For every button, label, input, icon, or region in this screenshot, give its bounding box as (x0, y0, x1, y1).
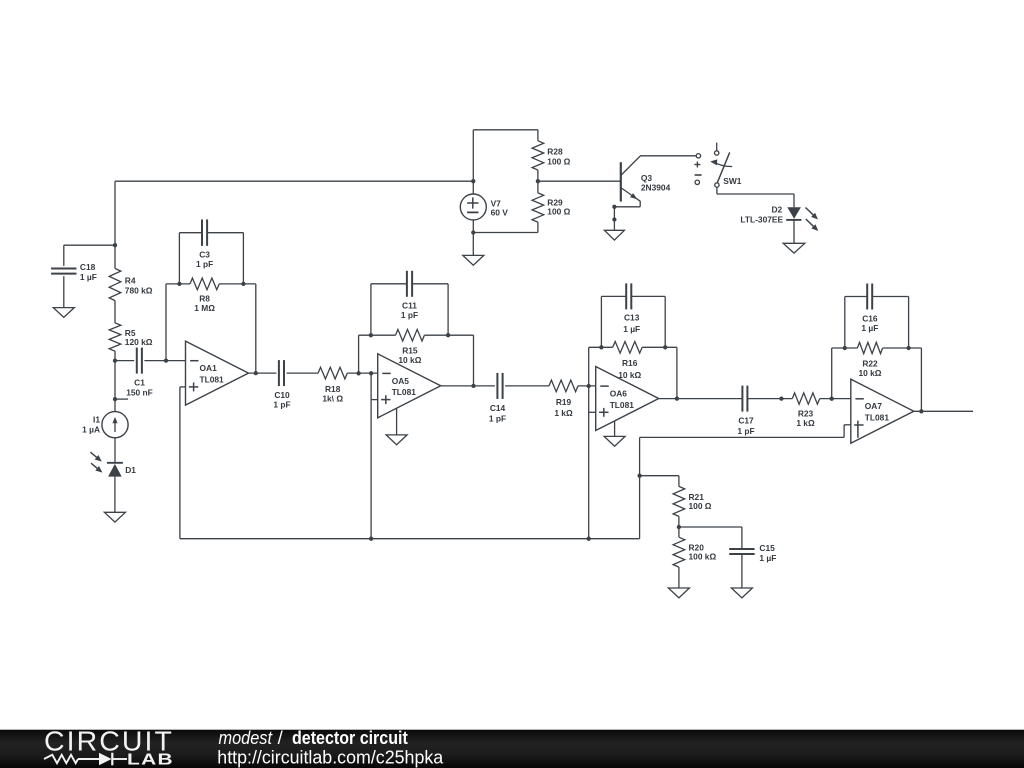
svg-text:detector circuit: detector circuit (292, 727, 408, 748)
svg-text:780 kΩ: 780 kΩ (125, 286, 153, 296)
svg-text:R8: R8 (199, 293, 210, 303)
svg-text:R23: R23 (798, 409, 814, 419)
svg-text:D2: D2 (771, 205, 782, 215)
svg-text:1 kΩ: 1 kΩ (554, 408, 573, 418)
svg-text:120 kΩ: 120 kΩ (125, 337, 153, 347)
svg-text:1k\ Ω: 1k\ Ω (322, 394, 343, 404)
svg-text:R19: R19 (556, 397, 572, 407)
svg-text:R16: R16 (622, 358, 638, 368)
svg-text:modest: modest (219, 727, 273, 748)
svg-text:1 µF: 1 µF (623, 324, 640, 334)
svg-text:10 kΩ: 10 kΩ (618, 370, 641, 380)
svg-text:R18: R18 (325, 384, 341, 394)
svg-text:TL081: TL081 (865, 413, 890, 423)
svg-text:/: / (278, 727, 284, 748)
svg-text:1 MΩ: 1 MΩ (194, 303, 215, 313)
svg-text:SW1: SW1 (723, 176, 741, 186)
svg-text:1 pF: 1 pF (737, 426, 754, 436)
svg-text:1 µF: 1 µF (861, 323, 878, 333)
svg-text:1 pF: 1 pF (273, 400, 290, 410)
svg-text:1 kΩ: 1 kΩ (796, 418, 815, 428)
svg-text:10 kΩ: 10 kΩ (858, 368, 881, 378)
svg-text:OA1: OA1 (200, 363, 218, 373)
svg-text:1 µA: 1 µA (82, 425, 100, 435)
svg-text:OA5: OA5 (392, 376, 410, 386)
svg-text:1 pF: 1 pF (489, 413, 506, 423)
svg-text:OA7: OA7 (865, 401, 883, 411)
svg-text:100 Ω: 100 Ω (689, 501, 712, 511)
svg-text:C16: C16 (862, 314, 878, 324)
svg-text:100 Ω: 100 Ω (547, 207, 570, 217)
svg-text:150 nF: 150 nF (126, 388, 153, 398)
svg-text:100 kΩ: 100 kΩ (689, 552, 717, 562)
svg-text:C11: C11 (402, 301, 417, 311)
svg-text:C13: C13 (624, 313, 640, 323)
svg-text:OA6: OA6 (610, 389, 628, 399)
svg-text:http://circuitlab.com/c25hpka: http://circuitlab.com/c25hpka (217, 746, 444, 767)
svg-text:1 pF: 1 pF (196, 259, 213, 269)
svg-text:LAB: LAB (127, 752, 174, 768)
svg-text:R28: R28 (547, 147, 563, 157)
svg-text:C1: C1 (134, 378, 145, 388)
svg-text:C17: C17 (738, 415, 754, 425)
svg-text:TL081: TL081 (200, 374, 225, 384)
svg-text:I1: I1 (93, 415, 100, 425)
svg-text:10 kΩ: 10 kΩ (398, 355, 421, 365)
svg-text:1 µF: 1 µF (759, 553, 776, 563)
svg-text:R4: R4 (125, 276, 136, 286)
svg-text:1 pF: 1 pF (401, 310, 418, 320)
svg-text:100 Ω: 100 Ω (547, 157, 570, 167)
svg-text:C18: C18 (80, 262, 96, 272)
svg-text:60 V: 60 V (491, 208, 509, 218)
svg-text:1 µF: 1 µF (80, 272, 97, 282)
svg-text:C14: C14 (490, 403, 506, 413)
svg-text:C15: C15 (759, 543, 775, 553)
svg-text:LTL-307EE: LTL-307EE (740, 214, 783, 224)
svg-text:2N3904: 2N3904 (641, 182, 671, 192)
svg-text:D1: D1 (125, 465, 136, 475)
svg-text:TL081: TL081 (610, 400, 635, 410)
svg-text:TL081: TL081 (392, 387, 417, 397)
